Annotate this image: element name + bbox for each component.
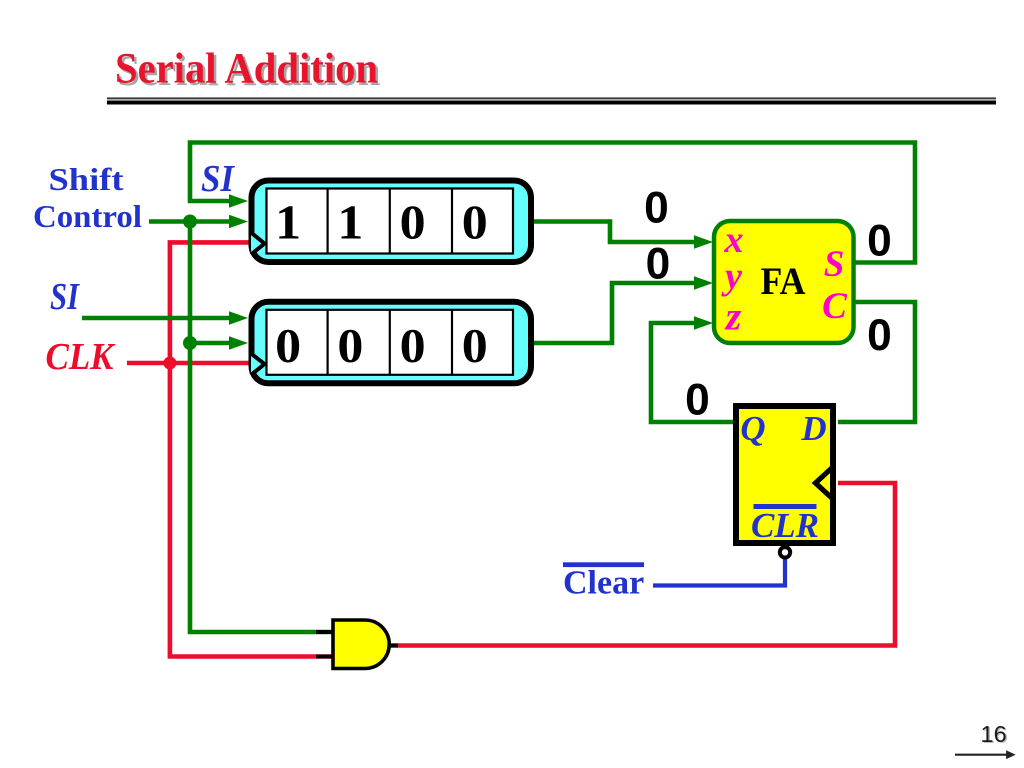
svg-text:0: 0: [275, 319, 301, 373]
svg-text:16: 16: [981, 721, 1007, 747]
svg-text:y: y: [721, 256, 742, 298]
svg-text:z: z: [724, 294, 742, 339]
svg-text:0: 0: [462, 195, 488, 249]
svg-text:Q: Q: [740, 409, 765, 448]
svg-text:FA: FA: [761, 260, 806, 303]
svg-text:0: 0: [644, 184, 669, 233]
svg-text:SI: SI: [50, 276, 80, 318]
svg-text:Control: Control: [33, 198, 142, 234]
svg-text:0: 0: [400, 195, 426, 249]
svg-text:0: 0: [646, 240, 671, 289]
svg-text:CLK: CLK: [46, 336, 116, 378]
svg-text:1: 1: [337, 195, 363, 249]
svg-text:C: C: [822, 286, 848, 327]
svg-text:0: 0: [462, 319, 488, 373]
svg-text:SI: SI: [201, 158, 235, 200]
svg-text:0: 0: [867, 311, 892, 360]
svg-text:D: D: [800, 409, 826, 448]
svg-text:Serial Addition: Serial Addition: [115, 46, 378, 93]
svg-text:S: S: [824, 244, 845, 285]
svg-text:0: 0: [400, 319, 426, 373]
svg-text:Shift: Shift: [49, 161, 124, 197]
svg-text:0: 0: [867, 217, 892, 266]
svg-text:Clear: Clear: [563, 565, 644, 602]
svg-text:0: 0: [337, 319, 363, 373]
svg-text:CLR: CLR: [751, 506, 819, 545]
svg-text:0: 0: [685, 376, 710, 425]
svg-text:1: 1: [275, 195, 301, 249]
